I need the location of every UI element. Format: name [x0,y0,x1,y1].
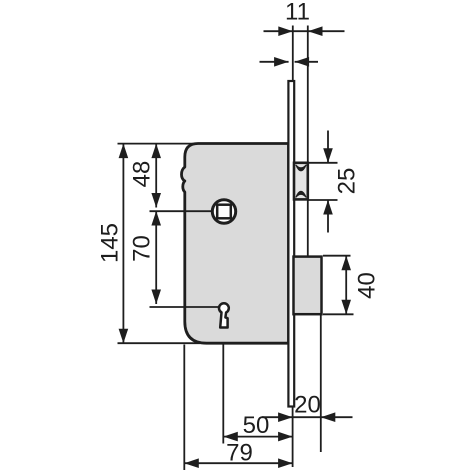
extension line faceplate edge up [292,26,294,82]
svg-text:25: 25 [334,168,361,195]
extension line latch face to deadbolt [307,199,309,257]
keyhole [219,303,229,327]
svg-text:70: 70 [129,235,156,262]
svg-text:145: 145 [96,223,123,263]
dim 79 right arrow [278,458,293,468]
keyhole leader line [150,306,220,308]
extension deadbolt face down [320,314,322,452]
dim 40 bottom extension [323,313,354,315]
latch bottom bevel crescent [296,191,306,197]
dim 25 top arrow [323,148,333,163]
svg-text:20: 20 [294,392,321,419]
dim 40 top arrow [341,256,351,271]
lock body case [182,144,289,344]
dim 70 line [155,211,157,304]
dim 145 top arrow [119,144,129,159]
dim 11 right arrow [308,26,323,36]
svg-text:50: 50 [243,412,270,439]
latch top bevel crescent [296,165,306,171]
extension body left edge down [183,345,185,470]
dim 145 line [122,144,124,344]
dim 145 bottom arrow [119,329,129,344]
dim 79 line [184,462,292,464]
spindle follower circle [212,200,235,223]
dim 79 left arrow [184,458,199,468]
spindle leader line [150,210,214,212]
dim 25 line top [327,131,329,163]
spindle square hole [217,205,231,219]
extension keyhole centerline down [222,345,224,444]
dim 25 bottom extension [308,199,338,201]
deadbolt [294,257,322,315]
dim 11 line [264,30,345,32]
body top extension line [118,143,198,145]
body bottom extension line [118,342,201,344]
svg-text:48: 48 [129,161,156,188]
svg-text:40: 40 [353,272,380,299]
dim 11 left arrow [278,26,293,36]
faceplate [288,81,294,407]
dim 20 right arrow [321,412,336,422]
faceplate thickness dim line right [295,61,318,63]
dim 48 bottom arrow [151,193,161,208]
thickness left arrow [274,57,289,67]
dim 48 line [155,144,157,208]
dim 40 line [345,256,347,315]
svg-text:11: 11 [285,0,310,26]
dim 25 top extension [308,162,338,164]
dim 50 right arrow [278,432,293,442]
dim 25 bottom arrow [323,200,333,215]
dim 50 left arrow [223,432,238,442]
dim 20 left arrow [278,412,293,422]
dim 70 top arrow [151,211,161,226]
faceplate thickness dim line left [260,61,289,63]
dim 25 line bottom [327,200,329,233]
thickness right arrow [295,57,310,67]
dim 20 line [262,416,353,418]
dim 50 line [223,436,292,438]
dim 40 top extension [323,255,351,257]
extension line latch face up [307,26,309,164]
dim 40 bottom arrow [341,300,351,315]
latch bolt [294,163,308,200]
extension faceplate down [292,407,294,467]
dim 48 top arrow [151,144,161,159]
dim 70 bottom arrow [151,290,161,305]
